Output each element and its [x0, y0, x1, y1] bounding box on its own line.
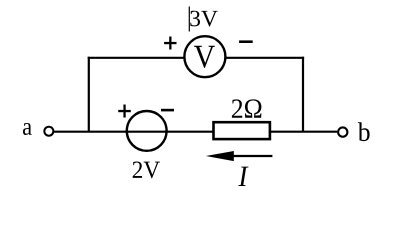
value label 2V	[133, 162, 160, 179]
current arrow I	[206, 151, 273, 161]
terminal a node	[44, 127, 53, 136]
resistor R 2Ω	[214, 122, 270, 139]
wire bottom net a-b	[53, 131, 337, 133]
polarity + (voltmeter left)	[164, 37, 176, 50]
voltmeter V	[184, 36, 225, 77]
wire top net	[88, 57, 304, 59]
voltmeter letter V	[194, 46, 215, 68]
label b	[358, 122, 370, 141]
value label 3V	[190, 11, 217, 27]
terminal b node	[338, 127, 347, 136]
value label 2Ω	[232, 99, 262, 117]
polarity - (voltmeter right)	[239, 40, 253, 43]
label a	[23, 123, 32, 135]
polarity + (source)	[118, 105, 131, 118]
wire right riser	[302, 57, 304, 132]
voltage source V1 2V	[127, 111, 167, 151]
strut mark before 3V label	[188, 7, 190, 32]
label I	[238, 167, 248, 186]
wire left riser	[88, 57, 90, 132]
polarity - (source)	[161, 109, 174, 112]
